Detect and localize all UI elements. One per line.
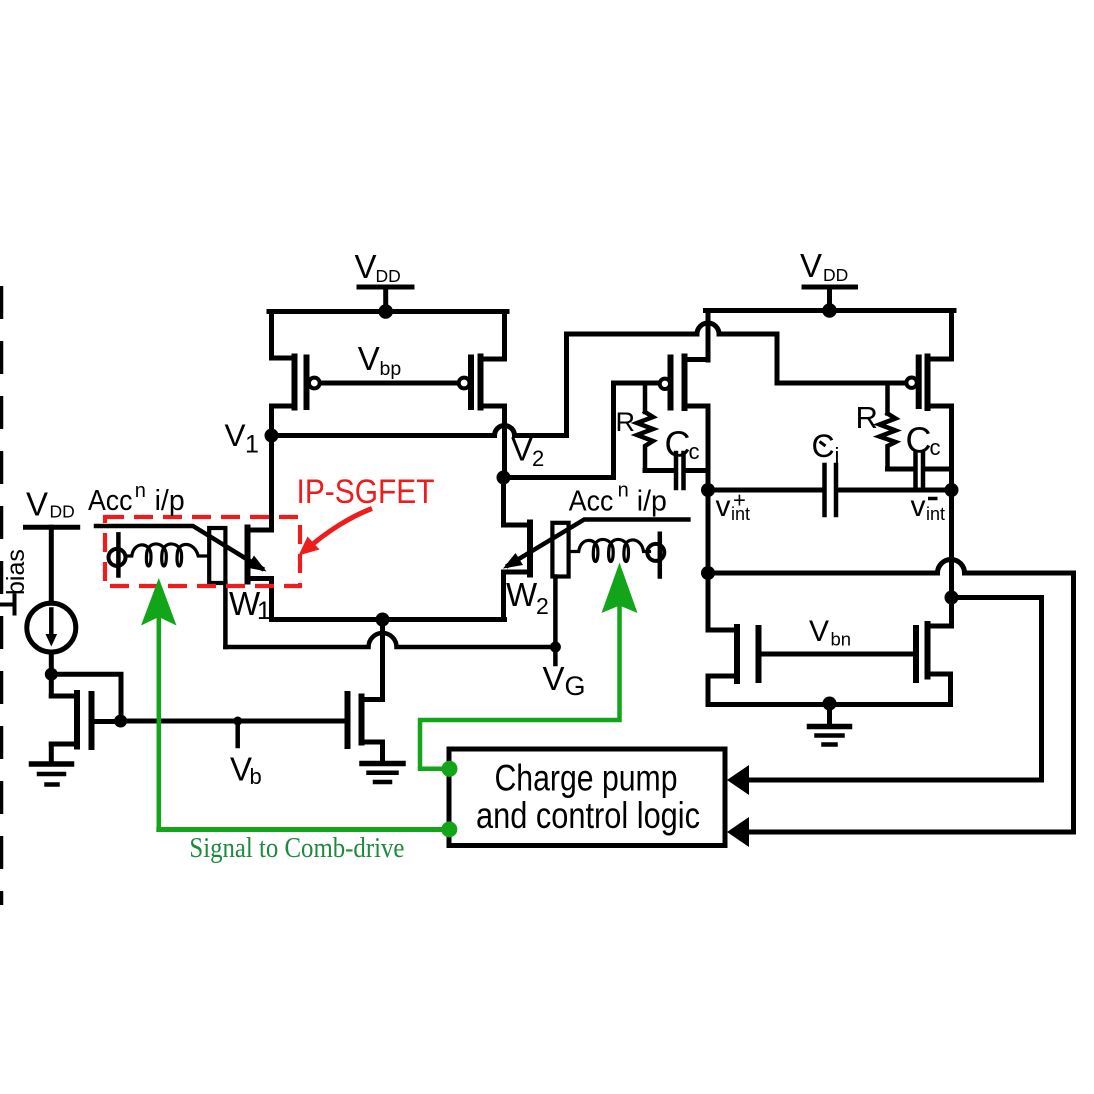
svg-text:i/p: i/p	[637, 486, 667, 518]
svg-text:Acc: Acc	[88, 485, 133, 517]
svg-text:V: V	[543, 660, 565, 697]
svg-text:V: V	[800, 247, 822, 284]
svg-text:C: C	[665, 424, 691, 465]
svg-text:bp: bp	[380, 358, 402, 380]
svg-text:int: int	[926, 504, 945, 524]
svg-text:i/p: i/p	[155, 485, 185, 517]
svg-text:2: 2	[532, 446, 544, 471]
svg-text:R: R	[856, 400, 878, 435]
svg-text:int: int	[731, 504, 750, 524]
svg-text:i: i	[835, 443, 840, 468]
svg-text:R: R	[616, 407, 636, 437]
svg-text:V: V	[809, 615, 829, 648]
svg-text:V: V	[26, 486, 48, 523]
svg-text:W: W	[506, 576, 538, 613]
svg-text:Charge pump: Charge pump	[495, 758, 678, 799]
svg-text:V: V	[511, 431, 533, 468]
svg-text:Acc: Acc	[569, 486, 614, 518]
svg-text:b: b	[250, 764, 262, 789]
svg-text:V: V	[358, 340, 380, 377]
svg-text:n: n	[618, 480, 629, 502]
svg-text:DD: DD	[50, 502, 75, 522]
svg-text:C: C	[906, 420, 932, 461]
svg-text:DD: DD	[376, 266, 401, 286]
svg-text:and control logic: and control logic	[476, 795, 700, 836]
svg-text:bias: bias	[2, 549, 30, 595]
svg-text:G: G	[565, 671, 586, 701]
svg-text:Signal to Comb-drive: Signal to Comb-drive	[189, 833, 404, 864]
svg-text:bn: bn	[831, 629, 852, 650]
svg-text:1: 1	[257, 597, 271, 625]
svg-text:c: c	[689, 439, 700, 464]
svg-text:2: 2	[536, 593, 549, 619]
svg-text:IP-SGFET: IP-SGFET	[297, 473, 435, 511]
svg-text:1: 1	[245, 431, 259, 459]
svg-text:DD: DD	[823, 265, 848, 285]
svg-text:V: V	[355, 248, 377, 285]
svg-text:v: v	[911, 490, 926, 523]
svg-text:n: n	[135, 480, 146, 502]
svg-text:c: c	[930, 435, 941, 460]
svg-text:v: v	[716, 490, 731, 523]
svg-text:V: V	[225, 417, 246, 453]
